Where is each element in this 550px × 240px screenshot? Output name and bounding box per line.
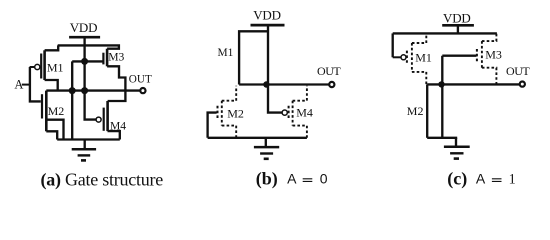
svg-text:(b): (b): [256, 168, 278, 189]
svg-text:OUT: OUT: [506, 64, 530, 78]
svg-text:VDD: VDD: [443, 10, 471, 25]
svg-text:M4: M4: [110, 120, 126, 133]
svg-text:M1: M1: [47, 61, 64, 75]
svg-text:M1: M1: [218, 47, 234, 59]
svg-text:VDD: VDD: [70, 20, 98, 35]
svg-text:VDD: VDD: [253, 7, 281, 22]
svg-text:A: A: [287, 170, 297, 186]
svg-text:1: 1: [509, 171, 516, 187]
svg-text:M1: M1: [415, 51, 432, 65]
svg-text:M3: M3: [108, 51, 124, 64]
svg-text:M4: M4: [296, 106, 313, 120]
svg-text:OUT: OUT: [129, 74, 152, 86]
svg-text:A: A: [476, 170, 486, 186]
svg-text:OUT: OUT: [317, 64, 341, 78]
svg-text:M2: M2: [407, 104, 424, 118]
svg-text:M3: M3: [485, 48, 502, 62]
svg-text:(a) Gate structure: (a) Gate structure: [41, 170, 164, 191]
svg-text:(c): (c): [447, 168, 467, 189]
svg-text:M2: M2: [48, 104, 65, 118]
svg-text:0: 0: [320, 170, 328, 186]
svg-text:M2: M2: [227, 106, 244, 120]
svg-text:A: A: [14, 77, 23, 91]
